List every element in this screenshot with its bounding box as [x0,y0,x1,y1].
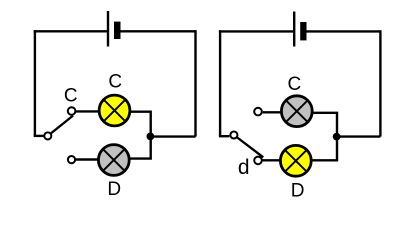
svg-text:d: d [238,156,250,179]
svg-text:C: C [64,85,78,106]
svg-text:C: C [288,74,302,95]
svg-text:D: D [107,179,121,200]
svg-text:C: C [108,72,122,93]
svg-text:D: D [291,181,305,202]
